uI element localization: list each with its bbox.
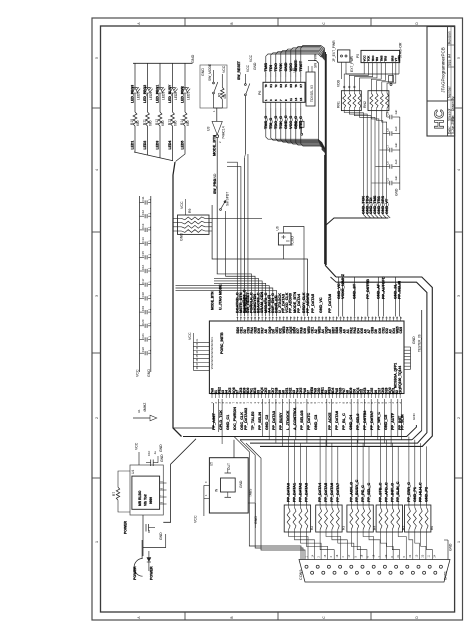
svg-text:PP_SELIN: PP_SELIN (398, 281, 402, 299)
svg-text:.1uF: .1uF (394, 126, 398, 132)
svg-text:K3: K3 (279, 84, 283, 88)
svg-text:VC1: VC1 (211, 352, 214, 357)
svg-text:U3: U3 (207, 127, 211, 131)
svg-text:PP_DATA3: PP_DATA3 (304, 483, 308, 502)
LED D3 (157, 63, 165, 112)
svg-text:C18: C18 (141, 292, 145, 298)
wires P6 bottom fan bus (266, 108, 326, 154)
svg-text:B: B (230, 616, 234, 618)
resistor network R3 (316, 505, 342, 532)
svg-text:R13: R13 (168, 119, 172, 125)
wires P6 top fan bus (266, 45, 325, 77)
svg-text:2: 2 (457, 417, 461, 419)
svg-text:POWER: POWER (124, 520, 128, 534)
svg-text:PP_AFD_C: PP_AFD_C (384, 482, 388, 502)
svg-text:U6: U6 (276, 226, 280, 230)
svg-text:PP_DSTRB: PP_DSTRB (366, 279, 370, 299)
LED D4 (170, 63, 178, 112)
svg-text:PP_WR_C: PP_WR_C (377, 412, 381, 430)
svg-text:TRS: TRS (384, 56, 388, 62)
svg-text:C13: C13 (141, 223, 145, 229)
svg-text:P5: P5 (356, 54, 360, 58)
svg-text:680: 680 (186, 120, 190, 126)
wire MCU gnd to trunk (173, 403, 213, 428)
svg-text:PP_DATC: PP_DATC (307, 412, 311, 430)
svg-text:2: 2 (95, 417, 99, 419)
wire LED branch 1 (134, 126, 136, 151)
switch group outline (200, 65, 227, 108)
svg-text:VCC: VCC (249, 54, 253, 62)
svg-text:LED4: LED4 (168, 141, 172, 150)
resistor R12 680 (158, 112, 162, 126)
svg-text:P6: P6 (258, 91, 262, 95)
svg-text:T6: T6 (294, 84, 298, 88)
svg-text:GND: GND (191, 54, 195, 63)
svg-text:GND_C3: GND_C3 (314, 415, 318, 430)
resistor network RN1 (341, 91, 361, 111)
svg-text:EXT_PWR: EXT_PWR (350, 55, 354, 72)
svg-text:GND: GND (294, 59, 298, 67)
svg-text:PP_DATA5: PP_DATA5 (311, 294, 315, 313)
svg-text:VCC: VCC (222, 65, 226, 73)
svg-text:PP_PE_C: PP_PE_C (361, 485, 365, 502)
svg-text:1u: 1u (147, 529, 151, 533)
svg-text:.1: .1 (148, 254, 152, 257)
svg-text:C12: C12 (141, 210, 145, 216)
svg-text:JP_EXT_PWR: JP_EXT_PWR (332, 40, 336, 62)
svg-text:T0: T0 (264, 84, 268, 88)
svg-text:13: 13 (294, 97, 298, 101)
svg-text:Drawn By:: Drawn By: (451, 96, 455, 111)
capacitors C5-C9 (372, 115, 400, 190)
wire SW_PWR down (308, 61, 323, 147)
wire main trunk vertical (173, 162, 182, 437)
svg-text:5: 5 (95, 57, 99, 59)
svg-text:LED_BUSY: LED_BUSY (168, 84, 172, 103)
svg-text:3: 3 (457, 295, 461, 297)
svg-text:1: 1 (457, 541, 461, 543)
svg-text:TCKSEL V3: TCKSEL V3 (310, 85, 314, 102)
svg-text:1: 1 (95, 541, 99, 543)
svg-text:GND: GND (147, 369, 151, 377)
resistor R10 680 (133, 112, 137, 126)
svg-text:VC1: VC1 (211, 360, 214, 365)
svg-text:R6: R6 (430, 526, 434, 530)
svg-text:680: 680 (174, 120, 178, 126)
wire h-line SW_PRG (212, 205, 307, 316)
svg-text:4MHZ: 4MHZ (143, 403, 147, 412)
capacitors C11-C22 ladder (140, 196, 151, 372)
svg-text:GND: GND (449, 543, 453, 551)
capacitor C24 (143, 515, 155, 556)
svg-text:U4: U4 (131, 470, 135, 474)
svg-text:PP_STB_C: PP_STB_C (379, 482, 383, 502)
MCU U2 body (209, 321, 404, 394)
svg-text:C11: C11 (141, 196, 145, 201)
wires ring to R4 (351, 437, 369, 506)
MCU pin stubs (212, 317, 401, 399)
svg-text:PP_DATA2: PP_DATA2 (298, 483, 302, 502)
svg-text:.1: .1 (148, 267, 152, 270)
IC U4 MAX809 (132, 476, 167, 509)
svg-text:PORC_INITB: PORC_INITB (220, 332, 224, 354)
svg-text:PP_DSTB3: PP_DSTB3 (363, 411, 367, 430)
svg-text:PP_ACK5: PP_ACK5 (328, 413, 332, 430)
svg-text:K7: K7 (299, 84, 303, 88)
svg-text:PP_DATA4: PP_DATA4 (318, 482, 322, 502)
svg-text:TESTER_06: TESTER_06 (418, 334, 422, 352)
svg-text:GND_C4: GND_C4 (349, 414, 353, 430)
wire VT vertical (247, 154, 249, 316)
svg-text:LED_PWR: LED_PWR (180, 86, 184, 103)
svg-text:GND1: GND1 (444, 571, 448, 580)
svg-text:R9: R9 (188, 209, 192, 213)
svg-text:PP_DATA0: PP_DATA0 (287, 483, 291, 502)
inverter U3 (212, 121, 222, 274)
svg-text:45k: 45k (223, 93, 227, 99)
oscillator TCXO (278, 233, 291, 245)
svg-text:C7: C7 (386, 144, 390, 148)
wires ring to R6 (409, 437, 427, 506)
svg-text:15: 15 (299, 97, 303, 101)
svg-text:LED4: LED4 (149, 92, 153, 100)
wire U5 top (233, 440, 235, 458)
title block box (427, 27, 455, 137)
resistor network R5 (376, 505, 402, 532)
svg-text:PP_DATA1: PP_DATA1 (293, 483, 297, 502)
svg-text:GND_ST: GND_ST (353, 283, 357, 299)
wires MCU bottom to ring (263, 399, 402, 446)
wire CON9 gnd (444, 540, 448, 560)
wire switch junction (214, 108, 223, 121)
svg-text:K5: K5 (289, 84, 293, 88)
svg-text:74HC14: 74HC14 (221, 126, 225, 139)
svg-text:VC1: VC1 (211, 348, 214, 353)
svg-text:LED2: LED2 (143, 141, 147, 150)
svg-text:R11: R11 (143, 119, 147, 125)
wire U5 right gnd (248, 503, 255, 528)
svg-text:PP_SEL_C: PP_SEL_C (367, 483, 371, 502)
svg-text:RN2: RN2 (363, 101, 367, 108)
bus ring inner (250, 282, 427, 443)
capacitor C10 (139, 452, 158, 466)
resistor network R2 (284, 505, 310, 532)
svg-text:LED_PRG3: LED_PRG3 (130, 85, 134, 103)
svg-text:U5: U5 (209, 462, 213, 466)
bus B3 horizontal (326, 218, 388, 225)
svg-text:R5: R5 (402, 526, 406, 530)
svg-text:U1: U1 (137, 409, 141, 413)
svg-text:U_JTAG MODE: U_JTAG MODE (219, 284, 223, 310)
svg-text:GND: GND (412, 413, 416, 421)
svg-text:Revision: Revision (447, 31, 451, 44)
wire to pin 1 corner (227, 162, 237, 316)
svg-text:R3: R3 (341, 526, 345, 530)
svg-text:R2: R2 (310, 526, 314, 530)
svg-text:VC1: VC1 (211, 356, 214, 361)
svg-text:.1uF: .1uF (394, 159, 398, 165)
svg-text:.1uF: .1uF (394, 109, 398, 115)
svg-text:PP_DATA3: PP_DATA3 (272, 411, 276, 430)
port 4MHZ (133, 415, 157, 421)
sheet outer border (92, 18, 463, 620)
svg-text:R5: R5 (218, 93, 222, 97)
wire LED branch 5 (184, 126, 186, 151)
svg-text:LED3: LED3 (156, 141, 160, 150)
svg-text:LED1: LED1 (186, 92, 190, 100)
svg-text:LED_PRG1: LED_PRG1 (155, 85, 159, 103)
svg-text:C8: C8 (386, 128, 390, 132)
svg-text:C19: C19 (141, 305, 145, 311)
svg-text:CON9: CON9 (299, 570, 303, 580)
wires RN to bus (344, 111, 390, 218)
svg-text:PP_ADDR0: PP_ADDR0 (289, 293, 293, 313)
svg-text:R7: R7 (112, 492, 116, 496)
svg-text:PP_DATA7: PP_DATA7 (370, 411, 374, 430)
svg-text:GND_VT: GND_VT (385, 198, 389, 214)
svg-text:IOC_PWRDN: IOC_PWRDN (233, 407, 237, 430)
svg-text:PP_DATA6: PP_DATA6 (335, 411, 339, 430)
svg-text:4: 4 (457, 169, 461, 171)
svg-text:4: 4 (95, 169, 99, 171)
MCU left pins (193, 333, 209, 370)
svg-text:PP_DATA5: PP_DATA5 (324, 483, 328, 502)
bus ring line3 (240, 439, 412, 441)
svg-text:C9: C9 (386, 111, 390, 115)
svg-text:L_JTAGCK: L_JTAGCK (286, 410, 290, 430)
svg-text:PP_AINIT: PP_AINIT (212, 412, 216, 430)
svg-text:VC1: VC1 (211, 364, 214, 369)
svg-text:VDD: VDD (337, 79, 341, 87)
svg-text:B: B (230, 22, 234, 24)
jumper TCKSEL (306, 66, 315, 106)
LED D2 (145, 63, 153, 112)
svg-text:RN1: RN1 (337, 101, 341, 108)
svg-text:PP_DATA0/2: PP_DATA0/2 (244, 408, 248, 430)
svg-text:GND: GND (201, 68, 205, 76)
svg-text:A_CONTROL: A_CONTROL (293, 406, 297, 430)
diode D6 (147, 558, 151, 563)
connector P6 (263, 77, 305, 108)
bus trunk bottom chamfer (325, 266, 336, 283)
svg-text:A4: A4 (447, 54, 451, 58)
jumper GND small (300, 121, 305, 135)
wire LED fan (134, 151, 185, 162)
ground symbol (292, 69, 297, 72)
connector CON9 DB25 (299, 560, 450, 583)
wire LED GND bus (133, 62, 193, 64)
resistor network RN2 (368, 91, 389, 111)
svg-text:C14: C14 (141, 237, 145, 243)
wires ring to CON9 left (234, 437, 305, 560)
wire power gnd route (143, 534, 166, 548)
svg-text:R14: R14 (180, 119, 184, 125)
zone tick marks (92, 18, 463, 620)
wires MCU bottom-left (219, 399, 223, 444)
svg-text:Size: Size (447, 59, 451, 66)
svg-text:.1uF: .1uF (394, 142, 398, 148)
bus ring line3 chamfer (412, 431, 422, 440)
svg-text:C21: C21 (141, 333, 145, 339)
rotated text labels layer (95, 22, 461, 619)
resistor R11 680 (146, 112, 150, 126)
svg-text:PP_DATA6: PP_DATA6 (328, 294, 332, 313)
svg-text:R4: R4 (373, 526, 377, 530)
wire TCXO top (284, 227, 305, 317)
wire TCXO bottom (283, 245, 285, 259)
switch SW_MODE (213, 70, 218, 108)
svg-text:VC1: VC1 (211, 344, 214, 349)
resistor R14 680 (183, 112, 187, 126)
svg-text:TABS: TABS (248, 488, 252, 497)
svg-text:SW_MODE: SW_MODE (208, 63, 212, 81)
title block dividers (427, 27, 455, 137)
svg-text:PP_ERR_C: PP_ERR_C (407, 482, 411, 502)
svg-text:SW_PWR: SW_PWR (314, 53, 318, 68)
wires ring to R3 (320, 437, 338, 506)
svg-text:GND: GND (253, 62, 257, 70)
svg-text:HC: HC (432, 109, 447, 129)
svg-text:3: 3 (95, 295, 99, 297)
svg-text:GND: GND (159, 444, 163, 452)
wires P5 to networks (344, 70, 399, 91)
svg-text:PP_SLIN_C: PP_SLIN_C (396, 481, 400, 502)
svg-text:680: 680 (136, 120, 140, 126)
switch SW_RESET (244, 74, 249, 316)
svg-text:GND: GND (395, 188, 399, 196)
svg-text:SW_RESET: SW_RESET (237, 60, 241, 80)
svg-text:.1: .1 (148, 240, 152, 243)
svg-text:MODE_BTN: MODE_BTN (210, 291, 214, 310)
svg-text:PP_INIT_C: PP_INIT_C (390, 483, 394, 502)
svg-text:R12: R12 (155, 119, 159, 125)
svg-text:PP_ADDR2: PP_ADDR2 (306, 293, 310, 313)
svg-text:GND_P1: GND_P1 (413, 487, 417, 502)
svg-text:MCSBGA_QFP1: MCSBGA_QFP1 (394, 363, 398, 388)
svg-text:.1: .1 (148, 212, 152, 215)
svg-text:SW_RESET: SW_RESET (244, 295, 248, 313)
jumper JP_EXT_PWR (338, 50, 399, 79)
svg-text:POWER: POWER (133, 566, 137, 580)
svg-text:.1: .1 (148, 349, 152, 352)
svg-text:VCC: VCC (188, 332, 192, 340)
svg-text:GND: GND (239, 480, 243, 488)
svg-text:GND_C5: GND_C5 (384, 415, 388, 430)
LED D5 (182, 63, 190, 112)
svg-text:LED3: LED3 (161, 92, 165, 100)
svg-text:PP_ACK_C: PP_ACK_C (349, 482, 353, 502)
bus ring line3 vert (421, 310, 423, 431)
svg-text:TP_TALE0: TP_TALE0 (251, 412, 255, 430)
resistor network R9 (173, 199, 262, 234)
svg-text:.1: .1 (148, 226, 152, 229)
wires ring to R2 (289, 437, 307, 506)
company logo HC (432, 109, 447, 129)
LED D1 (132, 63, 140, 112)
svg-text:Vih Tolr: Vih Tolr (144, 493, 148, 506)
svg-text:PP_BL_C: PP_BL_C (342, 413, 346, 430)
svg-text:PP_DATA6: PP_DATA6 (330, 483, 334, 502)
svg-text:LED_PRG2: LED_PRG2 (143, 85, 147, 103)
svg-text:.1: .1 (148, 336, 152, 339)
svg-text:PP_DATA4: PP_DATA4 (297, 293, 301, 313)
svg-text:C16: C16 (141, 264, 145, 270)
svg-text:PP_SEL0/3: PP_SEL0/3 (300, 410, 304, 430)
svg-text:680: 680 (149, 120, 153, 126)
svg-text:T4: T4 (284, 84, 288, 88)
svg-text:VCC: VCC (134, 442, 138, 450)
svg-text:.1: .1 (148, 281, 152, 284)
svg-text:POWER: POWER (149, 566, 153, 580)
svg-text:GND: GND (159, 532, 163, 540)
junction x marks (343, 86, 355, 88)
svg-text:PP_SELIN: PP_SELIN (258, 412, 262, 430)
svg-text:C17: C17 (141, 278, 145, 284)
svg-text:PP_HLH_C: PP_HLH_C (419, 482, 423, 502)
sheet inner border (101, 26, 455, 612)
svg-text:TCXO: TCXO (291, 236, 295, 246)
wires ring to MCU top (339, 277, 400, 317)
svg-text:C15: C15 (141, 251, 145, 257)
resistor network R4 (347, 505, 373, 532)
svg-text:PP_BUSY_C: PP_BUSY_C (355, 479, 359, 502)
MCU right pins (404, 347, 411, 369)
connector POWER jack (134, 540, 149, 576)
svg-text:5: 5 (457, 57, 461, 59)
bus trunk vertical (325, 52, 327, 266)
wires RN to CON9 (289, 532, 433, 560)
resistor R13 680 (171, 112, 175, 126)
svg-text:C10: C10 (147, 450, 151, 456)
svg-text:T2: T2 (274, 84, 278, 88)
svg-text:C20: C20 (141, 319, 145, 325)
bus ring line4 (183, 425, 416, 437)
svg-text:File:: File: (451, 115, 455, 121)
svg-text:PP_DATA7: PP_DATA7 (336, 483, 340, 502)
svg-text:9999: 9999 (149, 497, 153, 504)
svg-text:PP_SEL0: PP_SEL0 (356, 414, 360, 430)
svg-text:GND: GND (213, 173, 217, 181)
svg-text:Sw SPDT: Sw SPDT (226, 192, 230, 206)
svg-text:GND_C2: GND_C2 (265, 415, 269, 430)
svg-text:.1: .1 (148, 308, 152, 311)
svg-text:.1: .1 (148, 199, 152, 202)
supervisor group outline (130, 465, 163, 515)
svg-text:MODE_BTN: MODE_BTN (212, 135, 216, 156)
svg-text:VCC: VCC (246, 64, 250, 72)
wire LED branch 4 (172, 126, 174, 151)
svg-text:680: 680 (161, 120, 165, 126)
svg-text:PP_AUTF: PP_AUTF (391, 412, 395, 430)
switch SW_PRG (220, 200, 226, 276)
wires U5 left (204, 485, 210, 516)
svg-text:GND: GND (295, 119, 299, 127)
svg-text:OUT: OUT (227, 463, 231, 470)
wires ring to R5 (381, 437, 399, 506)
svg-text:C6: C6 (386, 161, 390, 165)
wire LED branch 2 (147, 126, 149, 151)
svg-text:VCC: VCC (193, 515, 197, 523)
bus ring outer (260, 277, 432, 446)
svg-text:GND_C1: GND_C1 (226, 415, 230, 430)
svg-text:11: 11 (289, 98, 293, 101)
svg-text:GND: GND (397, 55, 401, 61)
wire to pin 2 corner (227, 167, 241, 316)
svg-text:JTAGProgrammerPCB: JTAGProgrammerPCB (440, 47, 445, 92)
wire LED branch 3 (159, 126, 161, 151)
jumper on SRST wire (389, 76, 394, 86)
svg-text:.1: .1 (148, 295, 152, 298)
